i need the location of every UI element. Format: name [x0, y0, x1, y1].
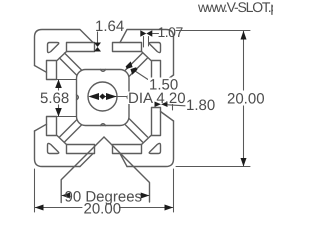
svg-text:1.07: 1.07	[158, 24, 184, 40]
left slot bottom lip bar	[47, 117, 57, 136]
right 20.00 extension line bottom	[176, 166, 250, 168]
bottom slot right lip bar	[113, 145, 142, 154]
right 20.00 dimension line lower part	[243, 106, 245, 167]
dash from 1.07 bowtie to text	[153, 33, 159, 35]
bottom 20.00 dimension line right part	[120, 207, 173, 209]
svg-text:20.00: 20.00	[84, 201, 122, 218]
svg-text:www.V-SLOT.pl.: www.V-SLOT.pl.	[197, 0, 273, 15]
outer frame top-left corner and top surface	[35, 30, 94, 66]
hole diameter arrow left	[88, 93, 99, 100]
right slot bottom lip bar	[152, 108, 161, 136]
left slot top bevel	[35, 66, 47, 73]
bottom-right web diagonal lines	[142, 136, 152, 145]
right 20.00 dimension line upper part	[243, 31, 245, 91]
bottom 20.00 dimension line left part	[35, 207, 82, 209]
boss face center notch bottom	[101, 124, 106, 126]
bottom 20.00 extension line left	[34, 169, 36, 212]
white text backgrounds	[40, 78, 266, 106]
90 degree V extension line left	[61, 137, 104, 203]
svg-text:1.64: 1.64	[95, 18, 124, 35]
svg-text:DIA 4.20: DIA 4.20	[128, 90, 186, 107]
corner triangle hole bottom-left	[48, 143, 59, 153]
leader line for 1.80	[168, 105, 185, 106]
corner triangle hole top-right	[149, 43, 160, 53]
svg-text:20.00: 20.00	[227, 91, 265, 108]
5.68 dimension line lower part	[58, 105, 60, 117]
central hole circle	[88, 82, 117, 111]
corner triangle hole bottom-right	[149, 143, 160, 153]
bottom slot right bevel	[120, 154, 127, 167]
boss face center notch left	[77, 95, 79, 100]
outer frame bottom-left corner	[35, 131, 81, 167]
5.68 dimension line upper part	[58, 80, 60, 92]
right 20.00 arrow down	[241, 158, 247, 167]
left slot top lip bar	[47, 61, 57, 80]
outer frame top-right corner	[120, 30, 174, 76]
boss face center notch top	[101, 70, 106, 72]
bottom slot left lip bar	[67, 145, 95, 154]
extension line for 1.80 at right surface	[172, 95, 174, 110]
svg-text:5.68: 5.68	[40, 90, 69, 107]
bottom 20.00 arrow right	[165, 205, 174, 211]
boss face center notch right	[127, 95, 129, 100]
top slot left lip bar	[67, 43, 95, 52]
central boss rounded square	[77, 70, 130, 126]
bottom 20.00 extension line right	[173, 169, 175, 212]
right 20.00 extension line top	[176, 30, 250, 32]
1.07 extension line right	[148, 37, 150, 47]
right slot bottom bevel	[161, 112, 174, 122]
left slot bottom bevel	[35, 124, 47, 131]
hole diameter arrow right	[106, 93, 117, 100]
5.68 dimension arrow up	[55, 80, 62, 89]
1.07 bowtie arrows	[140, 30, 146, 37]
right slot top bevel	[161, 75, 174, 85]
top slot right lip bar	[113, 43, 142, 52]
90 degrees arrow left	[61, 193, 70, 199]
90 degree V extension line right	[104, 137, 150, 202]
1.80 bowtie arrows	[155, 102, 162, 108]
top-left web diagonal lines	[57, 52, 67, 61]
right slot top lip bar	[152, 61, 161, 89]
bottom slot left bevel	[80, 154, 93, 167]
leader line for DIA 4.20	[103, 96, 128, 98]
90 degrees arrow right	[141, 193, 150, 199]
5.68 extension line bottom	[52, 116, 77, 118]
corner triangle hole top-left	[48, 43, 59, 53]
svg-text:1.80: 1.80	[186, 97, 215, 114]
90 degrees dimension line right	[142, 195, 149, 197]
5.68 extension line top	[52, 79, 77, 81]
1.07 extension line left	[143, 37, 145, 48]
bottom 20.00 arrow left	[35, 205, 44, 211]
5.68 dimension arrow down	[55, 108, 62, 117]
bottom-left web diagonal lines	[57, 136, 67, 145]
leader line for 1.50	[134, 70, 149, 80]
leader line for 1.64	[97, 32, 99, 43]
1.50 diagonal bowtie arrows	[126, 61, 133, 69]
right 20.00 arrow up	[241, 31, 247, 40]
top-right web diagonal lines	[142, 52, 152, 61]
outer frame bottom-right corner	[127, 121, 174, 167]
1.64 bowtie arrows	[94, 43, 101, 48]
hole diameter center diamond	[99, 94, 105, 100]
90 degrees dimension line left	[62, 195, 67, 197]
